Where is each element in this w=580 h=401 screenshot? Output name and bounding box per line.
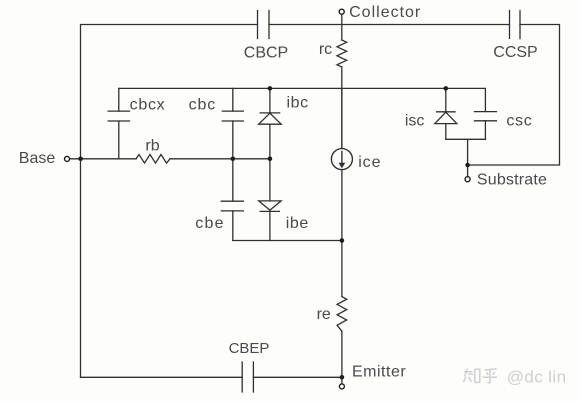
svg-text:rc: rc: [319, 41, 332, 58]
svg-text:cbcx: cbcx: [130, 97, 166, 114]
svg-text:CBCP: CBCP: [244, 45, 288, 62]
svg-text:@dc lin: @dc lin: [507, 368, 567, 387]
svg-text:Substrate: Substrate: [477, 172, 547, 189]
svg-text:ibc: ibc: [286, 95, 308, 112]
svg-text:CBEP: CBEP: [229, 340, 270, 357]
svg-text:ibe: ibe: [286, 215, 309, 232]
svg-text:Emitter: Emitter: [352, 364, 406, 381]
svg-text:Base: Base: [19, 150, 56, 167]
svg-text:cbe: cbe: [195, 215, 224, 232]
svg-text:re: re: [317, 306, 331, 323]
svg-text:CCSP: CCSP: [493, 44, 537, 61]
svg-text:rb: rb: [145, 138, 159, 155]
svg-text:csc: csc: [506, 113, 532, 130]
svg-text:isc: isc: [405, 113, 425, 130]
svg-text:cbc: cbc: [189, 97, 217, 114]
svg-text:Collector: Collector: [349, 4, 421, 21]
svg-text:ice: ice: [358, 154, 381, 171]
